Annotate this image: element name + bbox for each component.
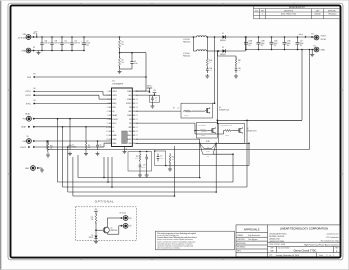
- svg-text:PGND: PGND: [127, 91, 131, 93]
- wire nest N3: [78, 155, 200, 178]
- ground R6: [84, 152, 88, 156]
- svg-text:Q2 Si7852DP: Q2 Si7852DP: [198, 125, 206, 127]
- svg-text:C1C: C1C: [64, 41, 67, 43]
- svg-text:SDP: SDP: [129, 127, 132, 129]
- svg-text:C9: C9: [155, 97, 157, 99]
- resistor R6: [85, 127, 90, 152]
- svg-text:11/16/10: 11/16/10: [314, 14, 320, 16]
- ground U1 pad: [123, 147, 128, 154]
- resistor R2: [119, 57, 124, 68]
- svg-text:C23C: C23C: [274, 41, 278, 43]
- svg-text:50V: 50V: [87, 45, 89, 47]
- net flag 12V at C9: [135, 90, 156, 96]
- svg-text:100uF: 100uF: [274, 43, 278, 45]
- svg-text:12V: 12V: [153, 90, 156, 92]
- svg-text:C2: C2: [87, 41, 89, 43]
- terminal E13 GND: [25, 166, 39, 171]
- svg-text:C4B: C4B: [238, 68, 241, 70]
- svg-text:SNS2-: SNS2-: [127, 139, 132, 141]
- wire DELAY to U1: [34, 126, 112, 128]
- wire sense right drop: [215, 143, 217, 193]
- svg-text:ECN: ECN: [255, 10, 258, 12]
- net flag 12V at input: [34, 31, 38, 37]
- svg-text:4700pF: 4700pF: [141, 167, 145, 169]
- transistor Q3 box: [219, 123, 245, 143]
- transistor Q1 box: [181, 103, 229, 118]
- compensation box R10 C13: [128, 151, 152, 171]
- svg-text:47nF: 47nF: [238, 70, 241, 72]
- terminal E1 VIN: [18, 33, 36, 39]
- wire L1 to D1: [207, 36, 220, 38]
- svg-text:C5: C5: [72, 144, 74, 146]
- svg-text:1N4148: 1N4148: [89, 237, 94, 239]
- svg-text:SYNC: SYNC: [112, 99, 116, 101]
- svg-text:R3B: R3B: [238, 60, 241, 62]
- svg-text:0.1uF: 0.1uF: [160, 158, 163, 160]
- svg-text:SDN: SDN: [128, 131, 131, 133]
- svg-text:REV: REV: [261, 10, 264, 12]
- svg-text:CNTL1: CNTL1: [112, 91, 117, 93]
- ground R12: [168, 162, 172, 171]
- terminal E9 temp gnd: [121, 223, 132, 228]
- capacitor C23C: [270, 36, 278, 50]
- wire input GND rail: [29, 50, 84, 52]
- svg-text:100uF: 100uF: [261, 43, 265, 45]
- svg-text:0.1uF: 0.1uF: [134, 63, 138, 65]
- wire VIN rail: [29, 36, 197, 38]
- svg-text:Kelly Bracksicker: Kelly Bracksicker: [248, 235, 261, 237]
- svg-text:PB2020-103: PB2020-103: [183, 55, 190, 57]
- svg-text:PGND: PGND: [127, 99, 131, 101]
- svg-text:22uF 50V: 22uF 50V: [44, 43, 50, 45]
- capacitor C17 box: [154, 150, 167, 166]
- svg-text:E1: E1: [33, 33, 35, 35]
- ground input rail: [37, 51, 41, 55]
- svg-text:2.2ohm: 2.2ohm: [201, 135, 205, 137]
- svg-text:TG2: TG2: [129, 123, 132, 125]
- svg-text:Tuan Nguyen: Tuan Nguyen: [248, 239, 258, 241]
- svg-text:CNTL2: CNTL2: [25, 95, 31, 97]
- terminal E10 DELAY: [21, 126, 35, 129]
- net flag 12V optional: [94, 209, 98, 214]
- svg-text:11: 11: [106, 131, 108, 133]
- wire nest N5: [63, 120, 248, 188]
- svg-text:1: 1: [262, 14, 263, 16]
- capacitor C1D: [70, 36, 80, 51]
- svg-text:E9: E9: [130, 226, 132, 228]
- svg-text:29.4K: 29.4K: [135, 158, 138, 160]
- svg-text:LINEAR TECHNOLOGY CORPORATION: LINEAR TECHNOLOGY CORPORATION: [280, 226, 328, 230]
- svg-text:PGOOD: PGOOD: [112, 119, 117, 121]
- svg-text:E6: E6: [34, 88, 36, 90]
- svg-text:MMBT3906: MMBT3906: [111, 230, 118, 232]
- svg-text:C23D: C23D: [287, 41, 291, 43]
- svg-text:L1 10.7uH: L1 10.7uH: [183, 39, 189, 41]
- svg-text:L2 10.7uH: L2 10.7uH: [183, 53, 189, 55]
- optional box: [76, 199, 137, 240]
- capacitor C23A: [244, 36, 252, 50]
- wire Q1 drain: [212, 37, 215, 104]
- transistor Q5: [103, 227, 117, 234]
- ground E13: [38, 168, 44, 172]
- svg-text:SNS1+: SNS1+: [112, 139, 117, 141]
- terminal E5 RUN: [27, 73, 35, 78]
- svg-text:INTVcc: INTVcc: [147, 86, 152, 88]
- capacitor C2: [81, 36, 91, 51]
- wire CNTL2 to U1: [34, 95, 111, 99]
- svg-text:CNTL1: CNTL1: [25, 91, 31, 93]
- wire D1 out to VOUT rail: [229, 36, 311, 38]
- svg-text:10k: 10k: [122, 44, 124, 46]
- svg-text:C24: C24: [300, 41, 303, 43]
- svg-text:E8: E8: [130, 218, 132, 220]
- terminal E3 VOUT: [310, 33, 327, 40]
- inductor L1: [183, 36, 207, 44]
- svg-text:1uF: 1uF: [155, 99, 157, 101]
- ground R2: [118, 66, 133, 74]
- terminal E12 PGOOD: [20, 146, 34, 149]
- svg-text:Si7852DP-T1-E3: Si7852DP-T1-E3: [247, 131, 257, 133]
- svg-text:RUN: RUN: [23, 141, 26, 143]
- diode D2: [220, 47, 229, 56]
- capacitor C24: [296, 36, 304, 50]
- svg-text:2.2ohm: 2.2ohm: [225, 135, 229, 137]
- ground C6: [96, 152, 100, 156]
- resistor R12: [169, 153, 174, 164]
- terminal E2 GND: [22, 47, 36, 53]
- capacitor C3: [130, 52, 137, 69]
- terminal E7 CNTL2: [25, 94, 35, 97]
- resistor R15B sense: [200, 143, 217, 158]
- svg-text:.015: .015: [207, 156, 210, 158]
- transistor Q2 box: [197, 123, 218, 139]
- resistor R1: [119, 36, 124, 49]
- wire net 302 vertical: [247, 49, 303, 121]
- svg-text:VIN: VIN: [23, 34, 27, 36]
- svg-text:35V: 35V: [300, 45, 302, 47]
- wire CNTL1 to U1: [34, 91, 111, 95]
- wire PGOOD to U1: [34, 143, 112, 148]
- wire sense drop: [174, 146, 176, 183]
- wire VIN to L2 drop: [193, 36, 197, 51]
- wire nest N7: [73, 157, 175, 197]
- svg-text:R13: R13: [50, 145, 53, 147]
- svg-text:E2: E2: [33, 47, 35, 49]
- svg-text:GND: GND: [25, 168, 30, 170]
- svg-text:35V: 35V: [248, 45, 250, 47]
- wire L2 to D2: [207, 50, 220, 52]
- svg-text:0.1uF: 0.1uF: [100, 147, 104, 149]
- svg-text:LT3782AEFE: LT3782AEFE: [112, 83, 124, 86]
- svg-text:22: 22: [136, 115, 138, 117]
- wire sense kelvin 1: [135, 139, 199, 143]
- resistor R7 gate: [135, 108, 181, 112]
- svg-text:100uF: 100uF: [87, 43, 91, 45]
- svg-text:GND: GND: [128, 143, 131, 145]
- svg-text:FB: FB: [112, 131, 114, 133]
- svg-text:R1: R1: [122, 42, 124, 44]
- svg-text:SS: SS: [26, 136, 28, 138]
- svg-text:2.2ohm: 2.2ohm: [185, 115, 189, 117]
- wire D2 out join: [229, 37, 246, 51]
- wire Q5 emitter: [108, 226, 122, 234]
- wire U1 stub B: [107, 157, 109, 183]
- wire U1 stub A: [103, 157, 105, 178]
- svg-text:RUN: RUN: [27, 77, 32, 79]
- capacitor C23B: [257, 36, 265, 50]
- snubber leg A R3A C4A: [205, 36, 212, 78]
- svg-text:BG2: BG2: [129, 111, 132, 113]
- wire gate phase2: [135, 123, 223, 134]
- wire output GND rail: [246, 49, 314, 51]
- svg-text:Q5: Q5: [111, 227, 113, 229]
- ground R10: [138, 169, 142, 177]
- ground C9: [151, 102, 155, 108]
- svg-text:100uF: 100uF: [300, 43, 304, 45]
- wire Q2 source return: [217, 120, 248, 123]
- svg-text:R10: R10: [136, 156, 139, 158]
- diode D3: [89, 235, 98, 239]
- wire sense rail: [135, 143, 249, 145]
- diode D1: [220, 33, 229, 42]
- svg-text:APPROVALS: APPROVALS: [244, 227, 260, 231]
- wire SYNC to U1: [34, 103, 111, 105]
- svg-text:TG1: TG1: [129, 119, 132, 121]
- svg-text:GND: GND: [22, 50, 27, 52]
- svg-text:Demo 770B to 770C: Demo 770B to 770C: [281, 13, 297, 16]
- svg-text:C6: C6: [100, 144, 102, 146]
- svg-text:35V: 35V: [274, 45, 276, 47]
- svg-text:1: 1: [327, 255, 328, 257]
- wire divider mid to RUN net: [120, 53, 147, 91]
- svg-text:R7: R7: [173, 108, 175, 110]
- svg-text:C1D: C1D: [74, 41, 77, 43]
- wire sense left drop: [199, 143, 201, 178]
- svg-text:21: 21: [136, 119, 138, 121]
- inductor L2: [183, 50, 207, 58]
- svg-text:E8: E8: [34, 100, 36, 102]
- ground R13: [46, 153, 50, 157]
- net flag INTVCC: [135, 86, 152, 93]
- svg-text:MFG:: MFG:: [237, 251, 241, 253]
- snubber leg B R3B C4B: [217, 50, 241, 78]
- svg-text:SS: SS: [112, 111, 114, 113]
- wire nest N2: [166, 143, 250, 166]
- wire Q5 collector: [108, 218, 122, 227]
- net flag Vout: [299, 33, 306, 38]
- capacitor C1A: [40, 36, 50, 51]
- capacitor C1B: [50, 36, 60, 51]
- svg-text:E3: E3: [312, 33, 314, 35]
- svg-text:For Customer Use Only: For Customer Use Only: [321, 240, 339, 243]
- svg-text:35V: 35V: [287, 45, 289, 47]
- svg-text:R17: R17: [91, 217, 94, 219]
- wire Q3 drain from L2: [217, 51, 219, 124]
- svg-text:10k: 10k: [91, 219, 93, 221]
- svg-text:(408)432-1900: (408)432-1900: [269, 238, 280, 240]
- wire RUN SS to U1: [34, 140, 112, 142]
- svg-text:R2: R2: [122, 60, 124, 62]
- svg-text:14: 14: [106, 143, 108, 145]
- terminal E11 RUN SS: [23, 136, 35, 143]
- wire sense drop extend: [174, 183, 176, 196]
- svg-text:10k: 10k: [122, 62, 124, 64]
- capacitor C1C: [60, 36, 70, 51]
- svg-text:100uF: 100uF: [248, 43, 252, 45]
- svg-text:C3: C3: [134, 61, 136, 63]
- svg-text:22uF 50V: 22uF 50V: [54, 43, 60, 45]
- svg-text:CHECKED:: CHECKED:: [237, 239, 245, 241]
- svg-text:.015: .015: [207, 147, 210, 149]
- svg-text:SYNC: SYNC: [26, 103, 32, 105]
- svg-text:Tuesday, November 16, 2010: Tuesday, November 16, 2010: [276, 255, 299, 257]
- svg-text:LTC Confidential: LTC Confidential: [326, 236, 339, 239]
- svg-text:47nF: 47nF: [209, 70, 212, 72]
- svg-text:Si7852DP-T1-E3: Si7852DP-T1-E3: [219, 110, 229, 112]
- svg-text:17: 17: [136, 135, 138, 137]
- svg-text:C23B: C23B: [261, 41, 265, 43]
- svg-text:OPTIONAL: OPTIONAL: [95, 199, 115, 203]
- svg-text:R12: R12: [172, 156, 175, 158]
- svg-text:Demo Circuit 770C: Demo Circuit 770C: [294, 248, 317, 252]
- svg-text:D1: D1: [222, 33, 224, 35]
- svg-text:SGND: SGND: [112, 135, 116, 137]
- svg-text:BG1: BG1: [129, 95, 132, 97]
- node UVLO divider mid: [119, 48, 121, 58]
- svg-text:2200pF: 2200pF: [72, 147, 77, 149]
- wire nest N1: [47, 49, 310, 150]
- svg-text:REVISION HISTORY: REVISION HISTORY: [289, 7, 306, 9]
- wire Q2 source return: [244, 119, 303, 121]
- svg-text:18: 18: [136, 131, 138, 133]
- svg-text:RUN: RUN: [112, 107, 115, 109]
- terminal E9 PGD DELAY: [23, 113, 35, 122]
- svg-text:R6: R6: [88, 145, 90, 147]
- ground C13: [145, 162, 149, 177]
- svg-text:12V (9-16V): 12V (9-16V): [18, 38, 27, 40]
- svg-text:CNTL2: CNTL2: [112, 95, 117, 97]
- svg-text:Vin Temp: Vin Temp: [120, 213, 126, 215]
- svg-text:D2: D2: [222, 47, 224, 49]
- svg-text:Q3 Si7852DP-T1-E3: Q3 Si7852DP-T1-E3: [220, 125, 232, 127]
- svg-text:51k: 51k: [88, 147, 90, 149]
- svg-text:SNS2+: SNS2+: [127, 135, 132, 137]
- svg-text:INTVCC: INTVCC: [126, 103, 131, 105]
- svg-text:D3: D3: [91, 235, 93, 237]
- op-amp U1 controller LT3782AEFE: [106, 81, 138, 147]
- svg-text:26: 26: [136, 99, 138, 101]
- svg-text:12: 12: [106, 135, 108, 137]
- svg-text:High Power Dual Phase Boost Co: High Power Dual Phase Boost Converter: [304, 244, 339, 247]
- wire nest N6: [68, 147, 216, 192]
- svg-text:E5: E5: [34, 73, 36, 75]
- wire RUN to U1: [34, 76, 146, 78]
- svg-text:1: 1: [333, 255, 334, 257]
- terminal E8 VIN TEMP: [120, 213, 132, 221]
- svg-text:VOUT: VOUT: [321, 36, 327, 38]
- svg-text:25: 25: [136, 103, 138, 105]
- svg-text:DESCRIPTION: DESCRIPTION: [284, 10, 293, 12]
- svg-text:PGND: PGND: [127, 115, 131, 117]
- svg-text:C1B: C1B: [54, 41, 57, 43]
- svg-text:C17: C17: [160, 156, 163, 158]
- svg-text:10: 10: [106, 127, 108, 129]
- terminal E4 GND out: [314, 45, 326, 51]
- svg-text:100uF: 100uF: [287, 43, 291, 45]
- svg-text:SIZE: SIZE: [270, 248, 273, 250]
- svg-text:22uF 50V: 22uF 50V: [64, 43, 70, 45]
- capacitor C5: [69, 119, 77, 150]
- ground C5: [68, 152, 72, 156]
- wire nest N4: [58, 119, 234, 182]
- svg-text:12V: 12V: [95, 209, 98, 211]
- svg-text:C13: C13: [143, 165, 146, 167]
- capacitor C6: [96, 141, 103, 150]
- wire U1 stub C: [111, 157, 113, 188]
- svg-text:VIN: VIN: [129, 107, 131, 109]
- terminal E6 CNTL1: [25, 88, 35, 93]
- svg-text:Q1: Q1: [219, 107, 221, 109]
- svg-text:www.linear.com: www.linear.com: [327, 233, 339, 236]
- svg-text:PB2020-103: PB2020-103: [183, 41, 190, 43]
- svg-text:PGOOD: PGOOD: [20, 147, 27, 149]
- resistor R15A sense: [200, 140, 217, 149]
- svg-text:24: 24: [136, 107, 138, 109]
- svg-text:22uF 50V: 22uF 50V: [74, 43, 80, 45]
- svg-text:VC: VC: [112, 127, 114, 129]
- wire PGD DELAY to U1: [34, 118, 112, 120]
- svg-text:R15B: R15B: [206, 151, 209, 153]
- svg-text:REV: REV: [335, 248, 338, 250]
- ground output rail: [310, 50, 314, 57]
- capacitor C9: [150, 95, 160, 102]
- svg-text:GND: GND: [321, 49, 326, 51]
- svg-text:SNS1-: SNS1-: [112, 143, 117, 145]
- svg-text:13: 13: [106, 139, 108, 141]
- svg-text:Vout: Vout: [299, 33, 303, 36]
- svg-text:19: 19: [136, 127, 138, 129]
- transistor Q4 label: [247, 128, 257, 133]
- resistor R13: [47, 140, 53, 153]
- svg-text:30BQ060: 30BQ060: [220, 40, 226, 42]
- svg-text:2.2: 2.2: [178, 108, 180, 110]
- node R17 base: [95, 223, 103, 236]
- ground D3: [94, 238, 98, 243]
- svg-text:E4: E4: [314, 45, 316, 47]
- capacitor C23D: [283, 36, 291, 50]
- svg-text:35V: 35V: [261, 45, 263, 47]
- resistor R17: [91, 213, 97, 224]
- terminal E8 SYNC: [26, 100, 36, 105]
